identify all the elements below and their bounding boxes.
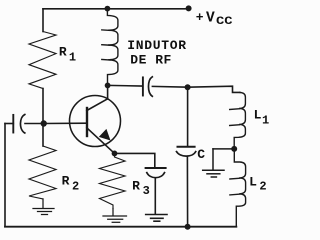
transistor Q1 bbox=[70, 85, 121, 153]
resistor R2 bbox=[29, 146, 56, 199]
resistor R3 bbox=[100, 154, 126, 209]
capacitor C (tank) bbox=[177, 87, 196, 227]
svg-text:DE RF: DE RF bbox=[130, 53, 171, 68]
node dot: emitter node bbox=[112, 151, 118, 157]
svg-text:R: R bbox=[62, 174, 70, 189]
ground under R3 bbox=[103, 209, 127, 223]
inductor L1 bbox=[230, 92, 246, 146]
capacitor emitter bypass bbox=[146, 168, 166, 214]
wire bottom rail bbox=[5, 226, 236, 228]
node dot: bottom rail junction bbox=[185, 224, 191, 230]
wire tank node to L1 bbox=[188, 86, 240, 92]
svg-text:V: V bbox=[206, 10, 215, 26]
svg-text:2: 2 bbox=[72, 179, 79, 193]
wire R1 bottom to base node and on to R2 bbox=[42, 89, 44, 147]
svg-text:+: + bbox=[196, 10, 204, 25]
svg-text:1: 1 bbox=[69, 50, 76, 64]
node dot: collector node bbox=[105, 83, 111, 89]
capacitor at base (left feedback cap) bbox=[5, 115, 41, 134]
wire top supply rail bbox=[43, 8, 189, 10]
svg-text:C: C bbox=[197, 147, 205, 162]
ground at L1/L2 junction bbox=[203, 170, 224, 177]
node dot: base node bbox=[41, 120, 47, 126]
node dot: Vcc terminal bbox=[186, 5, 192, 11]
svg-text:L: L bbox=[254, 108, 262, 123]
node dot: inductor top on rail bbox=[105, 6, 111, 12]
wire left column top (rail to R1) bbox=[42, 9, 44, 32]
svg-text:2: 2 bbox=[259, 180, 266, 194]
wire L1/L2 junction to ground bbox=[213, 149, 234, 169]
svg-text:R: R bbox=[59, 44, 67, 59]
svg-text:L: L bbox=[249, 175, 257, 190]
wire collector row to coupling cap bbox=[108, 84, 142, 87]
svg-text:R: R bbox=[132, 178, 140, 193]
svg-text:3: 3 bbox=[143, 184, 150, 198]
node dot: tank top node bbox=[185, 84, 191, 90]
ground under R2 bbox=[33, 199, 54, 215]
resistor R1 bbox=[29, 32, 56, 89]
wire base lead bbox=[44, 122, 87, 124]
svg-text:INDUTOR: INDUTOR bbox=[127, 38, 186, 53]
node dot: L1-L2 junction bbox=[231, 146, 237, 152]
label +Vcc bbox=[196, 10, 233, 28]
svg-text:CC: CC bbox=[216, 16, 233, 28]
inductor RF choke bbox=[102, 12, 118, 86]
wire emitter to bypass cap bbox=[115, 153, 155, 167]
inductor L2 bbox=[230, 152, 246, 227]
ground under bypass cap bbox=[146, 215, 167, 222]
svg-text:1: 1 bbox=[262, 113, 269, 127]
capacitor coupling (collector to tank) bbox=[143, 77, 188, 97]
wire left edge down bbox=[4, 124, 6, 227]
